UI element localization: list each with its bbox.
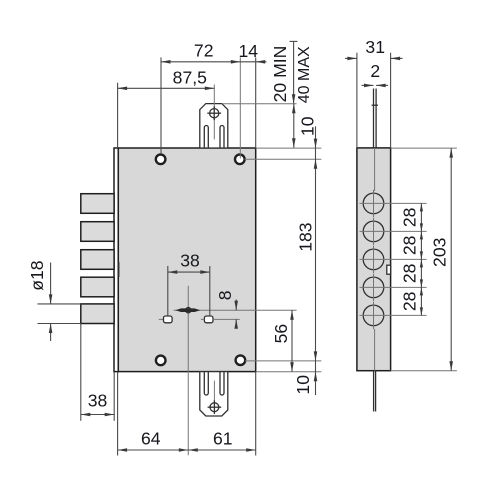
svg-text:64: 64 (141, 429, 161, 449)
top tab slot right (220, 126, 224, 149)
31 extension right (390, 53, 392, 148)
svg-text:10: 10 (293, 375, 313, 395)
faceplate latch notch (118, 262, 120, 277)
side notch (387, 265, 391, 274)
extension line right hole (72/14) (239, 57, 241, 158)
deadbolt 4 (81, 277, 114, 297)
svg-text:10: 10 (298, 116, 318, 136)
keyhole vertical center line (187, 286, 189, 456)
svg-text:ø18: ø18 (27, 260, 47, 291)
svg-text:28: 28 (399, 263, 419, 283)
body bottom edge extension right (256, 371, 322, 373)
rod center line lower body (374, 329, 376, 371)
svg-text:183: 183 (295, 222, 315, 252)
small holes row line (213, 318, 240, 320)
small hole left (159, 318, 164, 320)
dimension 56 line (291, 310, 293, 372)
bolt circle 5 (side view) (363, 305, 384, 326)
38 extension right (209, 266, 211, 316)
screw hole top-left (156, 155, 166, 165)
20 MIN dimension line (290, 40, 298, 42)
svg-text:38: 38 (180, 250, 200, 270)
dimension 38 bottom line (81, 414, 114, 416)
top rod left line (373, 89, 375, 148)
keyhole slot (double bit key slot) (175, 308, 200, 312)
svg-text:2: 2 (370, 61, 380, 81)
dim line 10(top)/183/10(bottom) (315, 126, 317, 395)
svg-text:203: 203 (430, 237, 450, 267)
bolt circle 4 (side view) (363, 277, 384, 298)
31 extension left (356, 53, 358, 148)
deadbolt 1 (81, 194, 114, 214)
38 bottom extension left (80, 324, 82, 421)
side view body (357, 148, 391, 371)
bottom guide tab (200, 372, 228, 416)
deadbolt 2 (81, 222, 114, 242)
dimension 64/61 line (118, 449, 256, 451)
row line 3 (360, 258, 427, 260)
dimension o18 line (50, 263, 52, 304)
top tab center line (213, 85, 215, 140)
o18 extension lines (38, 303, 81, 305)
203 extension bottom (391, 370, 457, 372)
row line 1 (360, 202, 427, 204)
dimension 38 line (keyhole) (168, 271, 210, 273)
tab top line to right (222, 103, 297, 105)
svg-text:87,5: 87,5 (173, 68, 207, 88)
deadbolt 5 (81, 304, 114, 324)
row line 4 (360, 286, 427, 288)
small hole right (204, 316, 213, 323)
top tab slot left (204, 126, 208, 149)
bolt circle 2 (side view) (363, 221, 384, 242)
row line 2 (360, 230, 427, 232)
svg-text:72: 72 (194, 40, 214, 60)
svg-text:8: 8 (215, 290, 235, 300)
extension line faceplate (87,5 left) (117, 83, 119, 148)
203 extension top (391, 147, 457, 149)
svg-text:20 MIN: 20 MIN (270, 46, 290, 103)
bolt circle 1 (side view) (363, 193, 384, 214)
top hole row line right (245, 158, 322, 160)
top rod right line (375, 89, 377, 148)
svg-text:28: 28 (399, 207, 419, 227)
bolt circle 3 (side view) (363, 249, 384, 270)
svg-text:40 MAX: 40 MAX (296, 46, 313, 103)
extension line body right edge up (255, 57, 257, 148)
bottom rod (373, 371, 375, 412)
bottom tab screw circle (210, 403, 219, 412)
top tab screw circle (210, 109, 219, 118)
top guide tab (200, 104, 228, 148)
rod tick (372, 104, 378, 106)
dimension 2 line (362, 84, 374, 86)
38 extension left (167, 266, 169, 316)
40 MAX dimension line (293, 104, 295, 148)
dimension 203 line (450, 148, 452, 371)
svg-text:61: 61 (213, 429, 233, 449)
dimension 72 / 14 line (161, 61, 267, 63)
deadbolt 3 (81, 250, 114, 270)
svg-text:14: 14 (239, 41, 259, 61)
38 bottom extension right (113, 372, 115, 421)
lock body (case) (118, 148, 255, 372)
bottom tab slot right (220, 372, 224, 395)
svg-text:31: 31 (365, 37, 385, 57)
dimension 31 line (345, 57, 357, 59)
dimension 87,5 line (118, 87, 215, 89)
61 extension right (255, 372, 257, 456)
svg-text:28: 28 (399, 291, 419, 311)
bottom tab center line (213, 381, 215, 403)
screw hole bottom-left (156, 356, 166, 366)
keyhole row line (174, 309, 297, 311)
row line 5 (360, 314, 427, 316)
dimension 28 chain line (420, 203, 422, 315)
bottom tab slot left (204, 372, 208, 395)
lock faceplate (front plate) (114, 148, 118, 372)
svg-text:56: 56 (271, 324, 291, 344)
bottom hole row line right (245, 360, 321, 362)
keyhole ring (186, 308, 191, 313)
dimension 8 (235, 300, 237, 311)
extension line left hole (72 left) (160, 57, 162, 154)
svg-text:38: 38 (88, 391, 108, 411)
body top edge extension right (256, 147, 322, 149)
screw hole bottom-right (236, 355, 246, 365)
screw hole top-right (235, 155, 245, 165)
64 extension left (117, 372, 119, 456)
rod center line inside body (374, 148, 376, 191)
svg-text:28: 28 (399, 235, 419, 255)
